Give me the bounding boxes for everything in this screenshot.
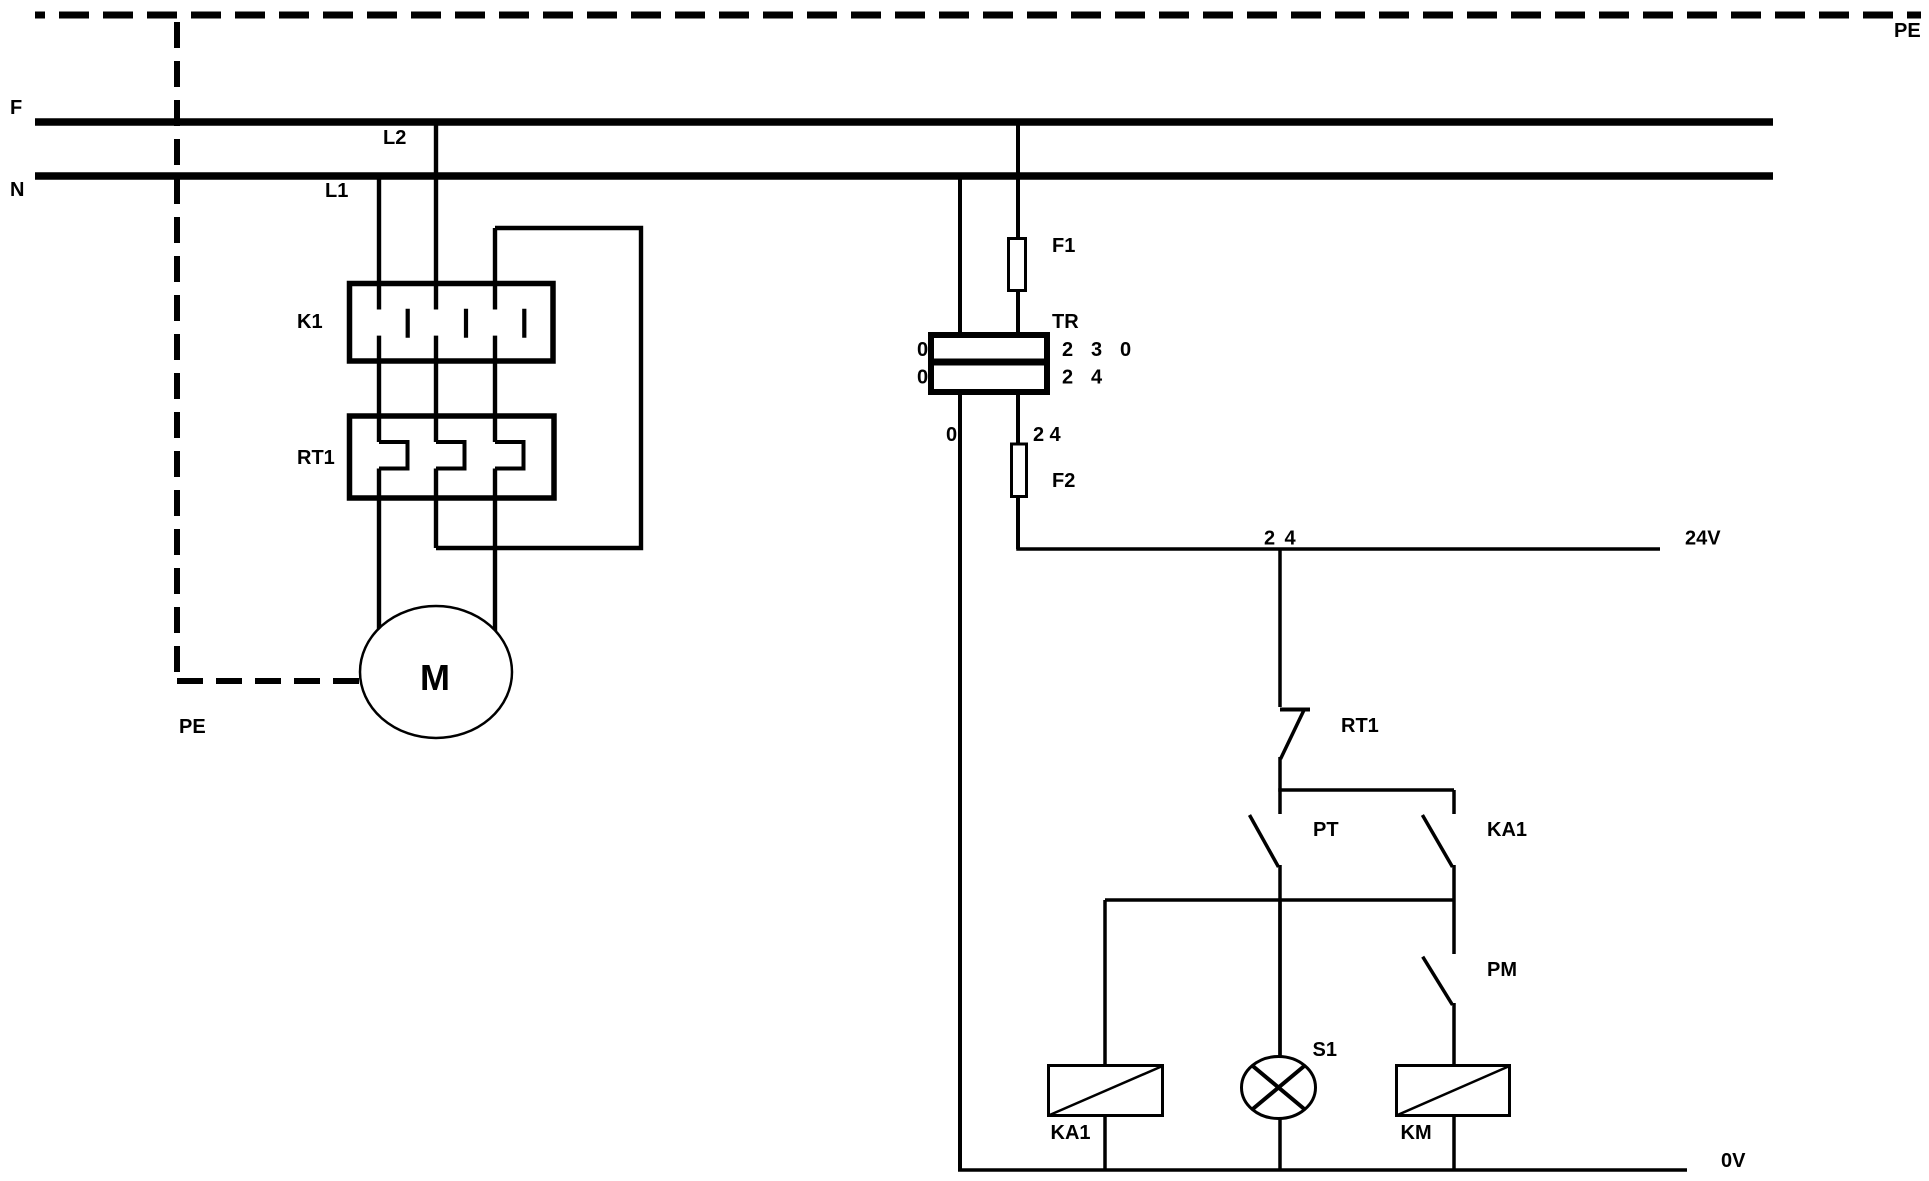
svg-text:2: 2 [1264,528,1275,550]
svg-text:0: 0 [917,339,928,361]
svg-text:L2: L2 [383,127,406,149]
svg-text:KA1: KA1 [1487,819,1527,841]
svg-text:L1: L1 [325,180,348,202]
svg-text:PT: PT [1313,819,1339,841]
svg-text:3: 3 [1091,339,1102,361]
svg-text:2: 2 [1033,424,1044,446]
svg-text:S1: S1 [1313,1039,1337,1061]
svg-text:PE: PE [179,716,206,738]
svg-text:4: 4 [1050,424,1062,446]
svg-text:4: 4 [1091,367,1103,389]
svg-text:M: M [420,657,450,698]
svg-text:2: 2 [1062,339,1073,361]
svg-text:2: 2 [1062,367,1073,389]
svg-text:0: 0 [1120,339,1131,361]
svg-text:RT1: RT1 [1341,715,1379,737]
svg-text:TR: TR [1052,311,1079,333]
svg-text:RT1: RT1 [297,447,335,469]
svg-text:F: F [10,97,22,119]
svg-text:PM: PM [1487,959,1517,981]
svg-text:0: 0 [917,367,928,389]
svg-text:F1: F1 [1052,235,1075,257]
svg-text:4: 4 [1285,528,1297,550]
svg-text:F2: F2 [1052,470,1075,492]
svg-text:N: N [10,179,24,201]
svg-text:0V: 0V [1721,1150,1746,1172]
svg-text:PE: PE [1894,20,1921,42]
svg-text:24V: 24V [1685,528,1721,550]
svg-text:KM: KM [1401,1122,1432,1144]
svg-text:0: 0 [946,424,957,446]
svg-text:KA1: KA1 [1051,1122,1091,1144]
svg-text:K1: K1 [297,311,323,333]
